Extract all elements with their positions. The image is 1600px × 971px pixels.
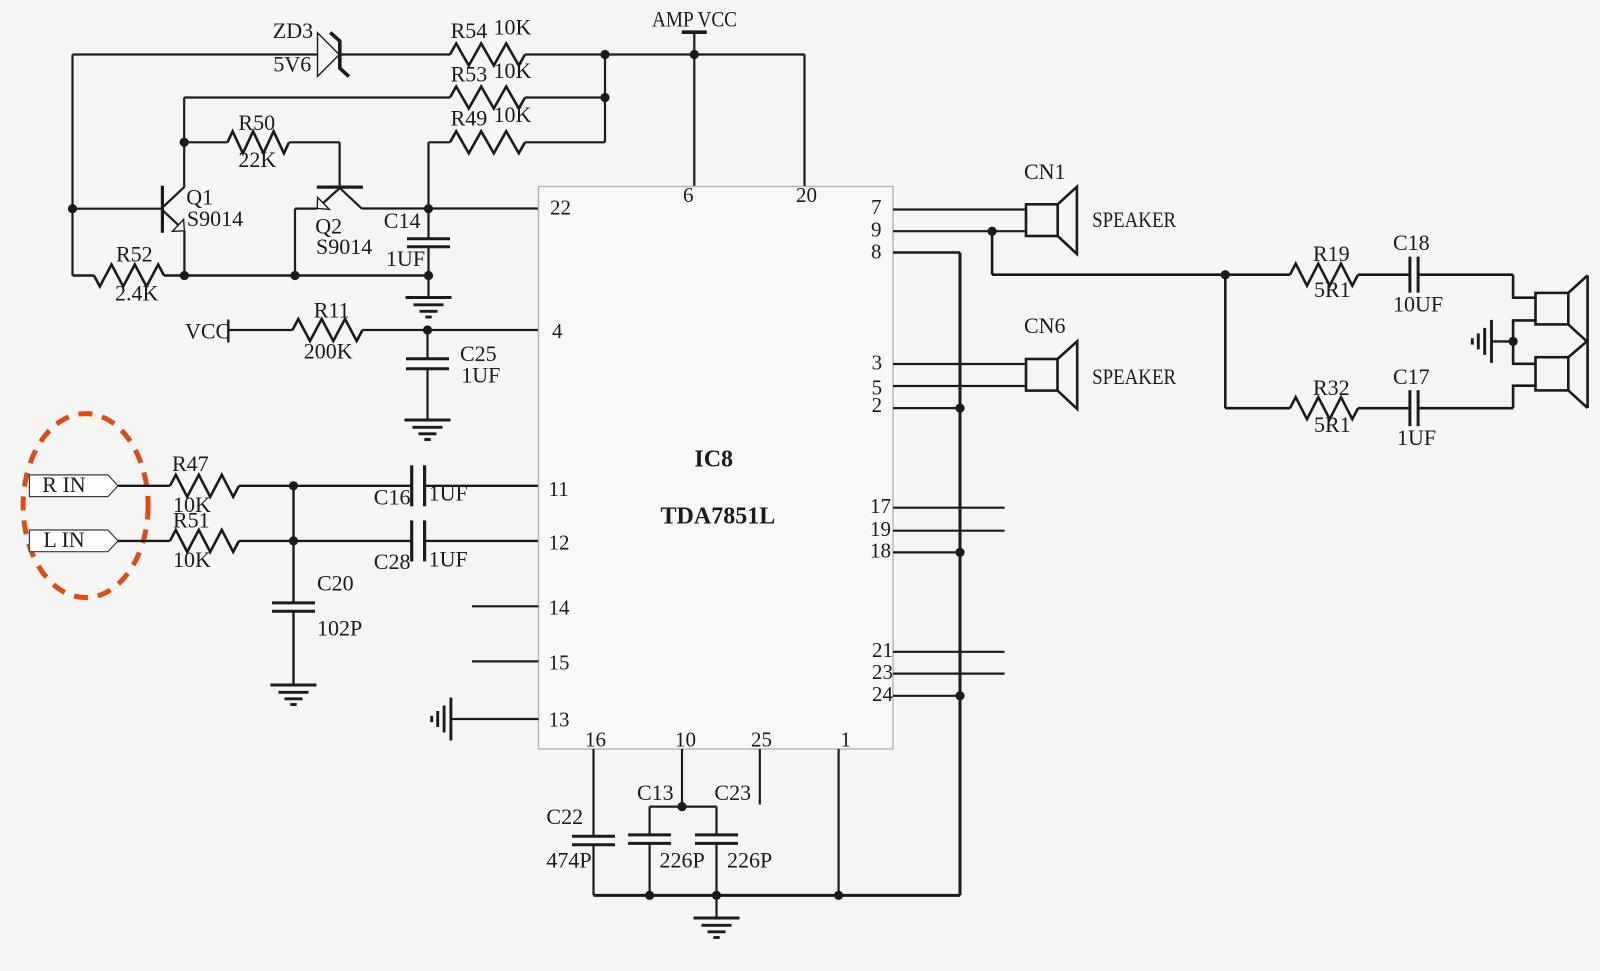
ground under C20 xyxy=(271,685,317,705)
wire R51 to C28 xyxy=(239,540,412,542)
junction xyxy=(423,325,432,334)
svg-text:6: 6 xyxy=(683,183,694,207)
svg-text:1UF: 1UF xyxy=(429,547,468,572)
svg-text:11: 11 xyxy=(549,477,569,501)
svg-text:10K: 10K xyxy=(173,547,211,572)
wire R53 to node xyxy=(525,96,605,98)
wire pin 14 stub xyxy=(472,605,539,607)
wire bottom bus xyxy=(594,894,961,897)
svg-text:15: 15 xyxy=(549,651,570,675)
svg-text:18: 18 xyxy=(870,539,891,563)
wire pin 24 xyxy=(893,695,960,697)
svg-text:C14: C14 xyxy=(384,208,421,233)
svg-text:ZD3: ZD3 xyxy=(273,18,313,43)
svg-text:19: 19 xyxy=(870,517,891,541)
wire down to pin22 node xyxy=(427,142,429,208)
svg-text:21: 21 xyxy=(872,638,893,662)
wire C18 to speaker xyxy=(1418,273,1513,276)
wire pin 25 stub xyxy=(759,749,761,805)
terminal VCC tick xyxy=(227,320,229,343)
wire AMP VCC to pin 6 xyxy=(693,32,695,186)
svg-text:10: 10 xyxy=(675,728,696,752)
wire R32 to C17 xyxy=(1358,407,1410,410)
resistor R49 xyxy=(450,131,525,153)
wire C13 C23 jog xyxy=(650,805,717,807)
svg-text:12: 12 xyxy=(549,531,570,555)
capacitor C16 xyxy=(412,465,425,506)
wire pin22 node to C14 xyxy=(427,209,429,239)
resistor R52 xyxy=(94,265,164,287)
svg-text:226P: 226P xyxy=(727,848,772,873)
wire VCC to R11 xyxy=(228,329,292,331)
wire C17 to speaker xyxy=(1418,407,1513,410)
capacitor C23 xyxy=(695,835,738,844)
wire C25 to ground xyxy=(426,369,428,420)
wire pin 15 stub xyxy=(472,660,539,662)
wire bus to ground xyxy=(715,895,717,917)
junction xyxy=(424,204,433,213)
junction xyxy=(988,227,997,236)
junction xyxy=(1509,337,1518,346)
resistor R19 xyxy=(1290,264,1358,286)
svg-text:20: 20 xyxy=(796,183,817,207)
svg-text:17: 17 xyxy=(870,494,891,518)
wire pin 8 xyxy=(893,251,960,254)
wire ground stem xyxy=(1492,340,1514,342)
svg-text:9: 9 xyxy=(871,218,882,242)
junction xyxy=(645,891,654,900)
wire top speaker - to ground node xyxy=(1513,320,1535,341)
svg-text:C20: C20 xyxy=(317,570,354,595)
speaker right top xyxy=(1536,275,1588,341)
junction xyxy=(955,691,964,700)
svg-text:L IN: L IN xyxy=(43,527,84,552)
wire L IN to R51 xyxy=(118,540,170,542)
wire to C23 xyxy=(715,807,717,835)
svg-text:C16: C16 xyxy=(374,484,411,509)
wire pin 9 to CN1 xyxy=(893,230,1026,232)
wire pin 10 down xyxy=(681,749,683,807)
svg-text:10K: 10K xyxy=(494,102,532,127)
junction xyxy=(955,404,964,413)
wire to R53 xyxy=(184,96,450,98)
svg-text:8: 8 xyxy=(871,240,882,264)
ground at speakers xyxy=(1472,320,1491,363)
svg-text:C13: C13 xyxy=(637,780,674,805)
junction xyxy=(424,271,433,280)
resistor R51 xyxy=(170,530,239,552)
svg-text:1: 1 xyxy=(841,728,852,752)
wire R11 to pin 4 xyxy=(363,329,539,331)
svg-text:C23: C23 xyxy=(714,780,751,805)
svg-text:CN1: CN1 xyxy=(1024,159,1066,184)
wire C28 to pin 12 xyxy=(425,540,539,542)
svg-text:14: 14 xyxy=(549,596,571,620)
junction xyxy=(180,138,189,147)
svg-text:C18: C18 xyxy=(1393,230,1430,255)
svg-text:7: 7 xyxy=(871,195,882,219)
wire C22 to bus xyxy=(592,845,594,896)
svg-text:S9014: S9014 xyxy=(187,206,243,231)
wire pin 3 to CN6 xyxy=(893,363,1026,365)
svg-text:1UF: 1UF xyxy=(1397,425,1436,450)
wire C23 to bus xyxy=(715,843,717,895)
wire to R19 xyxy=(992,273,1290,276)
wire node vertical x605 xyxy=(604,55,606,143)
junction xyxy=(290,271,299,280)
wire R52 bus to C14 xyxy=(164,274,429,276)
wire R49 to C14 node xyxy=(429,141,451,143)
wire C14 to ground xyxy=(427,247,429,297)
junction xyxy=(677,802,686,811)
ground under C14 xyxy=(406,298,452,318)
svg-text:SPEAKER: SPEAKER xyxy=(1092,364,1176,389)
wire pin 2 to node xyxy=(893,407,960,409)
svg-text:R53: R53 xyxy=(451,62,488,87)
svg-text:R IN: R IN xyxy=(42,472,86,497)
svg-text:10UF: 10UF xyxy=(1393,292,1443,317)
wire C13 to bus xyxy=(648,843,650,895)
wire node down to R32 row xyxy=(1224,275,1227,409)
junction xyxy=(180,271,189,280)
speaker CN1 xyxy=(1026,187,1077,254)
wire Q2 collector to pin 22 xyxy=(362,207,539,209)
wire pin 19 xyxy=(893,530,1005,532)
svg-text:2.4K: 2.4K xyxy=(115,281,159,306)
svg-text:AMP VCC: AMP VCC xyxy=(652,7,737,32)
svg-text:R19: R19 xyxy=(1313,241,1350,266)
wire pin 7 to CN1 xyxy=(893,208,1026,210)
capacitor C25 xyxy=(406,359,449,369)
wire to R32 xyxy=(1225,407,1290,410)
wire node to C20 xyxy=(292,486,294,603)
wire node to R50 xyxy=(184,141,227,143)
wire left vertical rail xyxy=(71,55,73,276)
ground under C25 xyxy=(405,420,451,440)
capacitor C14 xyxy=(407,239,450,247)
svg-text:5V6: 5V6 xyxy=(273,51,311,76)
resistor R50 xyxy=(228,131,290,153)
wire vertical at Q1 collector xyxy=(183,98,185,187)
ground under C23 xyxy=(694,918,740,938)
zener diode ZD3 xyxy=(318,33,350,77)
resistor R47 xyxy=(170,475,239,497)
wire to R52 xyxy=(73,274,95,276)
svg-text:R11: R11 xyxy=(314,297,350,322)
junction xyxy=(955,548,964,557)
svg-text:CN6: CN6 xyxy=(1024,313,1066,338)
wire pin 8 vertical to bus xyxy=(959,253,962,896)
capacitor C22 xyxy=(572,836,615,845)
svg-text:13: 13 xyxy=(549,708,570,732)
svg-text:R51: R51 xyxy=(173,508,210,533)
orange highlight ellipse xyxy=(23,414,148,598)
input tag R IN xyxy=(29,475,118,497)
wire R19 to C18 xyxy=(1358,273,1410,276)
wire pin 16 to C22 xyxy=(592,749,594,836)
wire R50 to Q2 base xyxy=(289,141,340,143)
capacitor C18 xyxy=(1410,257,1418,293)
speaker right bottom xyxy=(1536,275,1588,408)
ground at pin 13 xyxy=(432,698,451,741)
svg-text:R50: R50 xyxy=(238,110,275,135)
resistor R53 xyxy=(450,87,525,109)
svg-text:TDA7851L: TDA7851L xyxy=(661,503,776,529)
svg-text:R32: R32 xyxy=(1313,375,1350,400)
wire pin 9 node down xyxy=(991,231,994,275)
wire pin 23 xyxy=(893,672,1005,674)
resistor R54 xyxy=(450,44,525,66)
wire ZD3 to R54 xyxy=(340,53,450,55)
speaker CN6 xyxy=(1026,341,1077,409)
svg-text:10K: 10K xyxy=(494,58,532,83)
junction xyxy=(600,50,609,59)
capacitor C20 xyxy=(272,603,315,611)
resistor R11 xyxy=(293,319,363,341)
op-amp IC8 TDA7851L body xyxy=(539,187,894,750)
junction xyxy=(690,50,699,59)
svg-text:SPEAKER: SPEAKER xyxy=(1092,207,1176,232)
wire C16 to pin 11 xyxy=(425,485,539,487)
wire pin 13 to ground xyxy=(451,718,539,720)
wire down to Q2 base xyxy=(339,142,341,187)
svg-text:474P: 474P xyxy=(546,848,591,873)
svg-text:R47: R47 xyxy=(172,451,209,476)
capacitor C17 xyxy=(1410,390,1418,426)
wire to R49 xyxy=(525,141,605,143)
svg-text:3: 3 xyxy=(872,351,883,375)
wire R47 to C16 xyxy=(239,485,412,487)
svg-text:25: 25 xyxy=(751,728,772,752)
svg-text:S9014: S9014 xyxy=(316,234,372,259)
wire pin 18 xyxy=(893,551,960,553)
input tag L IN xyxy=(29,530,118,552)
svg-text:226P: 226P xyxy=(660,848,705,873)
svg-text:C28: C28 xyxy=(374,549,411,574)
svg-text:R49: R49 xyxy=(451,106,488,131)
svg-text:5R1: 5R1 xyxy=(1314,412,1351,437)
svg-text:4: 4 xyxy=(552,319,563,343)
svg-text:16: 16 xyxy=(585,728,606,752)
svg-text:24: 24 xyxy=(872,682,894,706)
junction xyxy=(834,891,843,900)
wire bottom speaker - to C17 row xyxy=(1513,386,1535,409)
svg-text:10K: 10K xyxy=(494,15,532,40)
wire R IN to R47 xyxy=(118,485,170,487)
wire pin 21 xyxy=(893,651,1005,653)
junction xyxy=(68,204,77,213)
wire pin 1 to bus xyxy=(837,749,839,895)
svg-text:200K: 200K xyxy=(304,339,353,364)
svg-text:102P: 102P xyxy=(317,615,362,640)
capacitor C28 xyxy=(412,520,425,561)
wire into top speaker + xyxy=(1513,275,1535,298)
svg-text:VCC: VCC xyxy=(185,319,230,344)
svg-text:1UF: 1UF xyxy=(429,480,468,505)
wire to C13 xyxy=(648,807,650,835)
svg-text:R52: R52 xyxy=(116,242,153,267)
wire ground node to bottom speaker + xyxy=(1513,341,1535,363)
svg-text:22K: 22K xyxy=(238,147,276,172)
svg-text:C17: C17 xyxy=(1393,364,1430,389)
transistor Q2 xyxy=(295,187,363,275)
capacitor C13 xyxy=(628,835,671,844)
svg-text:1UF: 1UF xyxy=(386,246,425,271)
svg-text:2: 2 xyxy=(872,393,883,417)
junction xyxy=(289,481,298,490)
junction xyxy=(1221,270,1230,279)
junction xyxy=(600,93,609,102)
wire pin 17 xyxy=(893,507,1005,509)
svg-text:IC8: IC8 xyxy=(694,446,733,472)
wire down to pin 20 xyxy=(803,55,805,187)
svg-text:22: 22 xyxy=(550,196,571,220)
svg-text:23: 23 xyxy=(872,660,893,684)
junction xyxy=(289,536,298,545)
svg-text:C22: C22 xyxy=(546,804,583,829)
power symbol AMP VCC xyxy=(682,30,707,34)
wire C20 to ground xyxy=(292,611,294,685)
svg-text:5R1: 5R1 xyxy=(1314,277,1351,302)
resistor R32 xyxy=(1290,397,1358,419)
wire node to C25 xyxy=(426,330,428,359)
junction xyxy=(712,891,721,900)
svg-text:1UF: 1UF xyxy=(461,362,500,387)
wire pin 5 to CN6 xyxy=(893,385,1026,387)
svg-text:R54: R54 xyxy=(451,18,488,43)
wire R54 to pin20 corner xyxy=(525,53,805,55)
transistor Q1 xyxy=(73,186,185,276)
wire top rail to ZD3 xyxy=(73,53,318,55)
